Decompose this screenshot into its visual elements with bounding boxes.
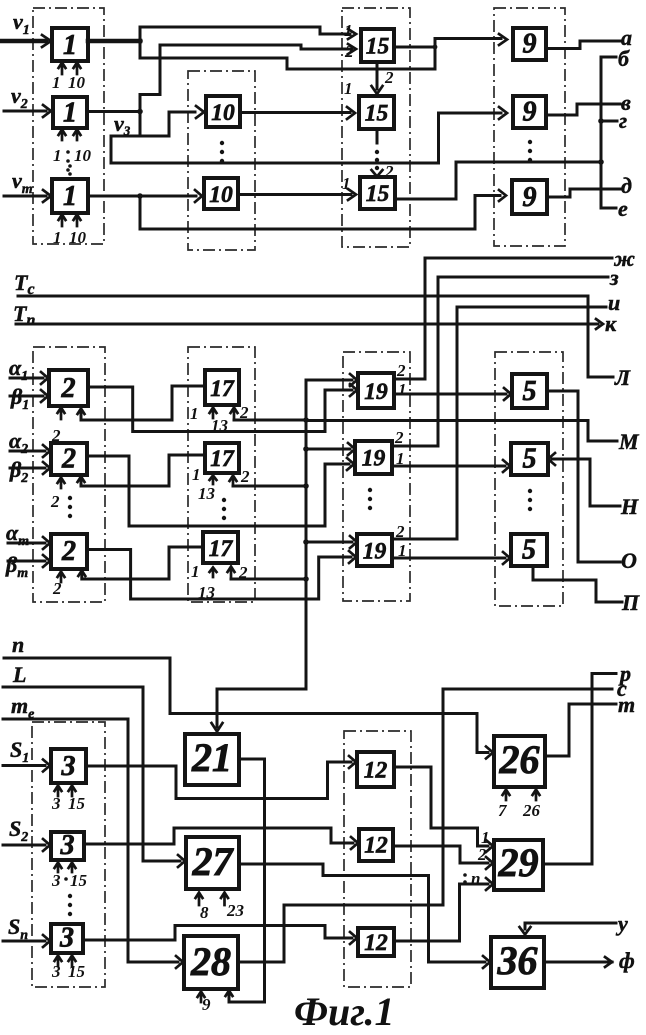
svg-text:Н: Н xyxy=(620,494,639,519)
svg-text:17: 17 xyxy=(209,536,234,562)
svg-text:5: 5 xyxy=(523,444,537,475)
svg-text:m: m xyxy=(618,692,635,717)
svg-text:г: г xyxy=(619,108,627,133)
svg-text:1: 1 xyxy=(342,174,351,193)
pin labels 3 15 under 3a xyxy=(51,794,86,813)
svg-text:26: 26 xyxy=(499,737,540,782)
svg-text:1: 1 xyxy=(192,465,201,484)
block 15 third xyxy=(360,177,395,209)
svg-text:3: 3 xyxy=(51,962,61,981)
block 3 first xyxy=(51,749,86,783)
svg-text:2: 2 xyxy=(240,467,250,486)
svg-text:П: П xyxy=(621,590,640,615)
svg-text:О: О xyxy=(621,548,637,573)
wire 1a bypass to 9a xyxy=(140,41,435,69)
svg-text:13: 13 xyxy=(198,583,216,602)
wire Tc to L output xyxy=(18,296,613,377)
svg-text:15: 15 xyxy=(365,101,389,127)
pin labels 2 1 at 19c xyxy=(395,522,407,560)
pin labels 8 23 under 27 xyxy=(200,901,245,922)
block 28 xyxy=(184,936,238,989)
pin arrow 2c bottom left with label 2 xyxy=(52,572,65,599)
dash-dot frame column of blocks 3 xyxy=(32,722,105,987)
svg-text:12: 12 xyxy=(364,833,388,859)
block 5 second xyxy=(511,443,548,475)
dash-dot frame column of blocks 10 xyxy=(188,71,255,250)
wire 3c output to 12c xyxy=(83,926,357,945)
svg-text:17: 17 xyxy=(210,376,235,402)
svg-text:и: и xyxy=(608,290,620,315)
wire betam input xyxy=(8,555,50,567)
svg-text:5: 5 xyxy=(522,535,536,566)
svg-text:15: 15 xyxy=(68,794,86,813)
svg-text:15: 15 xyxy=(70,871,88,890)
svg-text:p: p xyxy=(618,661,631,686)
pin 2 of 17b joining M bus xyxy=(230,467,307,486)
wire 27 output to 36 input xyxy=(239,864,490,968)
wire S2 input xyxy=(3,839,50,851)
svg-text:27: 27 xyxy=(192,839,235,884)
wire S1 input xyxy=(3,760,50,772)
svg-text:9: 9 xyxy=(523,97,537,128)
wire 12c output to 29 pin n xyxy=(394,878,493,941)
wire 10b output to 15c xyxy=(238,189,356,200)
block 10 second xyxy=(204,178,238,209)
dots between blocks 19 xyxy=(368,488,372,510)
svg-text:13: 13 xyxy=(211,416,229,435)
pin labels 1 2 at 15a xyxy=(344,21,354,61)
svg-text:Л: Л xyxy=(614,365,631,390)
pin arrows under block 1 first xyxy=(59,63,81,75)
svg-text:12: 12 xyxy=(364,930,388,956)
dots between blocks 2 xyxy=(68,496,72,518)
block 2 first xyxy=(49,370,88,406)
block 1 second xyxy=(53,97,87,129)
block 1 third xyxy=(52,179,88,213)
block 9 second xyxy=(513,96,546,128)
wire 19b pin1 to 5b xyxy=(392,460,510,472)
wire num input xyxy=(4,190,51,202)
wire 3a output to 12a xyxy=(86,756,356,799)
wire 2a output to 19a lower xyxy=(88,384,357,432)
wire 29 output to p output xyxy=(543,674,616,865)
svg-text:L: L xyxy=(12,662,26,687)
pin arrow 17b bottom 1 xyxy=(192,465,217,503)
pin labels 3 15 under 3c xyxy=(51,962,86,981)
dash-dot frame column of blocks 17 xyxy=(188,347,255,602)
block 5 first xyxy=(512,374,547,408)
wire beta2 input xyxy=(10,462,50,474)
dash-dot frame column of blocks 19 xyxy=(343,352,410,601)
block 1 first xyxy=(52,28,88,61)
wire 19a pin1 to 5a xyxy=(394,388,511,400)
block 9 first xyxy=(513,28,546,60)
svg-text:10: 10 xyxy=(211,100,235,126)
wire 17b left loop to 2b bottom xyxy=(78,455,206,486)
svg-text:2: 2 xyxy=(61,444,76,475)
block 3 second xyxy=(51,830,84,861)
svg-text:2: 2 xyxy=(396,361,406,380)
block 21 xyxy=(185,734,239,785)
block 17 second xyxy=(205,443,239,473)
svg-text:2: 2 xyxy=(477,845,487,864)
block 3 third xyxy=(51,923,83,954)
wire to 15a pin1 top route xyxy=(140,27,356,41)
svg-text:1: 1 xyxy=(63,181,77,212)
wire 17a left loop to 2a bottom xyxy=(78,386,206,420)
dash-dot frame column of blocks 15 xyxy=(342,8,410,247)
wire 26 output to m output xyxy=(545,704,616,756)
svg-text:ф: ф xyxy=(619,948,635,973)
dots between blocks 17 xyxy=(222,498,226,520)
svg-text:9: 9 xyxy=(202,995,211,1014)
pin arrow 17c bottom 1 xyxy=(191,562,217,602)
block 36 xyxy=(491,937,544,988)
svg-text:1: 1 xyxy=(52,73,61,92)
svg-text:2: 2 xyxy=(239,403,249,422)
block 15 first xyxy=(361,29,394,62)
wire beta1 input xyxy=(10,390,48,402)
pin arrows under block 3 third xyxy=(55,956,76,967)
svg-text:1: 1 xyxy=(53,228,62,247)
svg-text:1: 1 xyxy=(53,146,62,165)
wire 10a output to 15b xyxy=(240,107,355,119)
svg-text:3: 3 xyxy=(51,794,61,813)
svg-text:1: 1 xyxy=(190,404,199,423)
block 26 xyxy=(494,736,545,787)
wire 5c bottom to P output xyxy=(533,566,622,602)
wire 1c bypass long to 9c xyxy=(140,190,506,229)
wire alpha2 input xyxy=(10,445,50,457)
dots between blocks 9 xyxy=(528,140,532,162)
dash-dot frame column of blocks 1 xyxy=(33,8,104,244)
svg-text:2: 2 xyxy=(52,579,62,598)
wire 28 output to c output xyxy=(238,689,612,962)
wire 17c left loop to 2c bottom xyxy=(78,547,203,579)
pin arrow 2a bottom left with label 2 xyxy=(51,408,65,446)
block 19 first xyxy=(358,373,394,408)
svg-text:21: 21 xyxy=(191,735,232,780)
wire bge vertical with taps xyxy=(598,57,617,208)
block 2 second xyxy=(51,443,87,475)
svg-text:26: 26 xyxy=(522,801,541,820)
pin labels 1 2 n at 29 xyxy=(463,828,489,888)
svg-text:28: 28 xyxy=(190,939,231,984)
svg-text:15: 15 xyxy=(366,34,390,60)
svg-text:10: 10 xyxy=(209,182,233,208)
pin 2 of 17c joining M bus xyxy=(228,563,307,582)
svg-text:19: 19 xyxy=(364,379,388,405)
wire 12a output to 29 pin1 xyxy=(394,767,493,852)
wire block1c output xyxy=(88,190,202,202)
svg-text:19: 19 xyxy=(363,539,387,565)
svg-text:3: 3 xyxy=(51,871,61,890)
pin labels 3 15 under 3b xyxy=(51,871,88,890)
pin arrows under block 1 third xyxy=(59,215,81,227)
wire 1b to 15a pin2 staircase xyxy=(140,44,356,112)
pin arrows under block 3 second xyxy=(55,863,76,873)
pin arrow 9 under block 28 xyxy=(198,992,212,1015)
svg-text:29: 29 xyxy=(498,840,539,885)
svg-text:8: 8 xyxy=(200,903,209,922)
wire 15b to 15c dotted arrow xyxy=(372,129,383,177)
svg-text:1: 1 xyxy=(398,380,407,399)
block 19 second xyxy=(355,441,392,474)
arrow into 10a xyxy=(196,106,204,118)
svg-text:е: е xyxy=(618,196,628,221)
pin labels 1 10 under block 1 second xyxy=(53,146,92,172)
svg-text:1: 1 xyxy=(344,79,353,98)
wire 5a output to O xyxy=(547,391,620,562)
svg-text:9: 9 xyxy=(523,182,537,213)
wire L to 27 input xyxy=(3,687,185,867)
wire 2b output to 19b lower xyxy=(87,456,354,526)
wire 19a pin2 to zh output xyxy=(394,258,612,379)
dots between blocks 5 xyxy=(528,489,532,511)
wire 19b pin2 to z output xyxy=(392,277,608,446)
wire 19c pin2 to i output xyxy=(392,307,606,539)
block 27 xyxy=(186,837,239,889)
svg-text:3: 3 xyxy=(61,751,76,782)
svg-text:д: д xyxy=(621,173,632,198)
pin labels 1 10 under block 1 first xyxy=(52,73,86,92)
svg-text:1: 1 xyxy=(191,562,200,581)
wire M bus to block 21 arrow xyxy=(212,689,307,732)
wire Tp to k output xyxy=(16,319,603,329)
svg-text:15: 15 xyxy=(68,962,86,981)
wire y input to 36 top xyxy=(520,923,617,935)
block 2 third xyxy=(51,534,87,569)
wire n to 26 input xyxy=(4,658,493,759)
wire 15a output joining 9a feed xyxy=(394,34,507,69)
svg-text:1: 1 xyxy=(344,21,353,40)
dash-dot frame column of blocks 2 xyxy=(33,347,105,602)
wire N input into 5b right xyxy=(548,453,620,506)
svg-text:2: 2 xyxy=(61,373,76,404)
svg-text:17: 17 xyxy=(210,446,235,472)
wire block1a output thick xyxy=(88,38,143,44)
pin arrow 17a bottom 1 xyxy=(190,404,229,435)
block 15 second xyxy=(359,96,394,129)
svg-text:1: 1 xyxy=(63,98,77,129)
wire 9a output to a xyxy=(546,41,620,49)
pin arrow 2b bottom left with label 2 xyxy=(50,478,65,512)
wire 21 output down to 28 bottom pin xyxy=(226,759,265,1002)
pin labels 7 26 under block 26 xyxy=(498,801,541,820)
block 17 third xyxy=(203,532,238,563)
svg-text:2: 2 xyxy=(394,428,404,447)
dots between blocks 10 xyxy=(220,141,224,163)
wire alpham input xyxy=(8,537,50,549)
svg-text:5: 5 xyxy=(523,376,537,407)
svg-text:2: 2 xyxy=(238,563,248,582)
pin 2 of 17a joining M bus xyxy=(231,403,309,423)
block 9 third xyxy=(512,180,547,214)
svg-text:10: 10 xyxy=(74,146,92,165)
pin labels 2 1 at 19b xyxy=(394,428,405,468)
svg-text:Фиг.1: Фиг.1 xyxy=(294,989,395,1034)
wire nu2 input xyxy=(4,105,51,117)
svg-text:3: 3 xyxy=(60,830,75,861)
wire 2c output to 19c lower xyxy=(87,550,356,600)
wire 9b output to v xyxy=(546,104,620,115)
block 12 first xyxy=(357,752,394,787)
wire block1b output xyxy=(87,109,143,115)
pin arrows under block 1 second xyxy=(59,130,81,141)
pin arrows under block 3 first xyxy=(55,786,76,797)
wire 1b bypass long to 9b xyxy=(111,107,507,163)
svg-text:13: 13 xyxy=(198,484,216,503)
wire 1b down to nu3 node xyxy=(111,112,195,137)
block 12 third xyxy=(358,928,394,956)
wire nu1 input xyxy=(1,35,51,47)
wire M bus vertical distribution xyxy=(303,374,357,689)
pin arrows under block 27 xyxy=(196,893,229,906)
block 29 xyxy=(494,840,543,890)
wire 15a to 15b vertical arrow xyxy=(372,62,383,94)
dash-dot frame column of blocks 5 xyxy=(495,352,563,606)
svg-text:3: 3 xyxy=(59,923,74,954)
svg-text:2: 2 xyxy=(384,68,394,87)
svg-text:з: з xyxy=(609,265,619,290)
svg-text:19: 19 xyxy=(362,446,386,472)
wire M bus long horizontal to M output xyxy=(306,421,617,442)
wire 15c output to bge vertical xyxy=(395,159,604,199)
block 10 first xyxy=(206,96,240,127)
wire 36 output to f output xyxy=(544,957,612,967)
svg-text:9: 9 xyxy=(523,29,537,60)
wire alpha1 input xyxy=(10,372,48,384)
svg-text:n: n xyxy=(471,869,480,888)
svg-text:10: 10 xyxy=(68,73,86,92)
wire 12b output to 29 pin2 xyxy=(393,846,493,869)
svg-text:б: б xyxy=(618,46,630,71)
svg-text:23: 23 xyxy=(226,901,245,920)
dots between blocks1 xyxy=(68,164,72,176)
pin labels 2 1 at 19a xyxy=(396,361,407,399)
svg-text:1: 1 xyxy=(63,30,77,61)
wire 3b output to 12b xyxy=(84,828,358,849)
svg-text:36: 36 xyxy=(497,938,538,983)
svg-text:2: 2 xyxy=(61,536,76,567)
dots between blocks 3 xyxy=(68,894,72,916)
wire 19c pin1 to 5c xyxy=(392,552,510,564)
svg-text:М: М xyxy=(618,429,640,454)
svg-text:10: 10 xyxy=(69,228,87,247)
wire Sn input xyxy=(3,935,50,947)
svg-text:15: 15 xyxy=(366,181,390,207)
block 19 third xyxy=(357,534,392,566)
svg-text:2: 2 xyxy=(50,492,60,511)
dash-dot frame column of blocks 9 xyxy=(494,8,565,246)
pin arrows under block 26 xyxy=(503,790,540,801)
pin labels 1 10 under block 1 third xyxy=(53,228,87,247)
svg-text:n: n xyxy=(12,632,24,657)
dash-dot frame column of blocks 12 xyxy=(344,731,411,987)
wire me to 28 input xyxy=(3,719,183,968)
block 12 second xyxy=(359,829,393,861)
block 17 first xyxy=(205,370,239,405)
wire 9c output to d xyxy=(547,189,620,197)
svg-text:12: 12 xyxy=(364,758,388,784)
block 5 third xyxy=(511,534,547,566)
